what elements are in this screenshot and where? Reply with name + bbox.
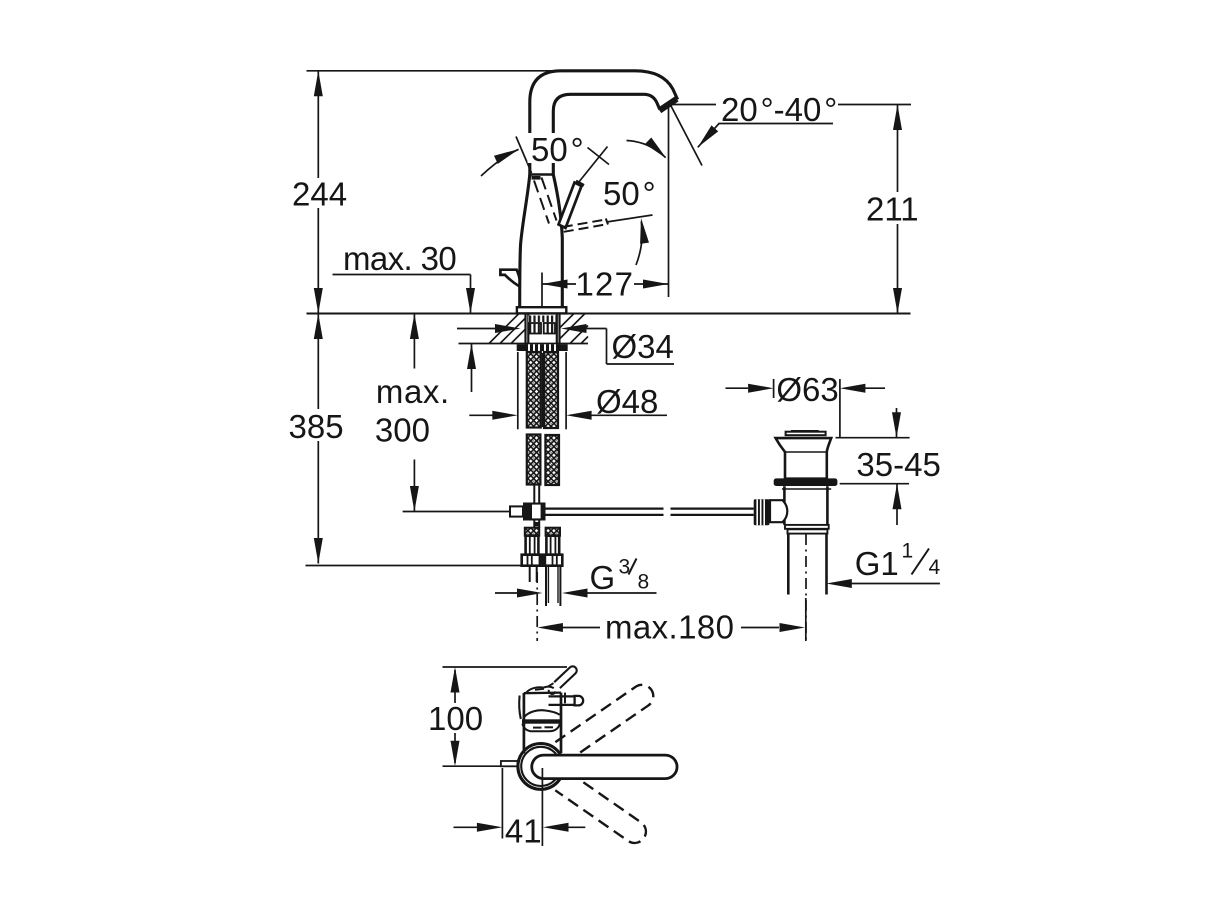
svg-text:127: 127 [576,266,635,303]
svg-text:G: G [590,559,616,596]
svg-text:20 °-40 °: 20 °-40 ° [721,91,837,128]
svg-text:Ø63: Ø63 [776,371,838,408]
svg-text:3: 3 [619,556,631,579]
svg-text:1: 1 [902,540,914,563]
svg-text:4: 4 [929,556,941,579]
svg-text:G1: G1 [855,545,899,582]
svg-text:50 °: 50 ° [531,131,584,168]
svg-text:385: 385 [289,408,344,445]
svg-text:max. 30: max. 30 [343,240,456,277]
svg-text:max.: max. [376,373,450,410]
svg-text:8: 8 [638,571,650,594]
svg-text:100: 100 [428,700,483,737]
svg-text:244: 244 [292,175,347,212]
svg-text:41: 41 [505,812,542,849]
svg-text:50 °: 50 ° [603,175,656,212]
svg-text:35-45: 35-45 [856,446,940,483]
svg-text:Ø48: Ø48 [596,383,658,420]
svg-text:max.180: max.180 [605,608,734,645]
svg-text:300: 300 [375,411,430,448]
svg-text:Ø34: Ø34 [612,328,674,365]
svg-text:211: 211 [866,191,919,228]
